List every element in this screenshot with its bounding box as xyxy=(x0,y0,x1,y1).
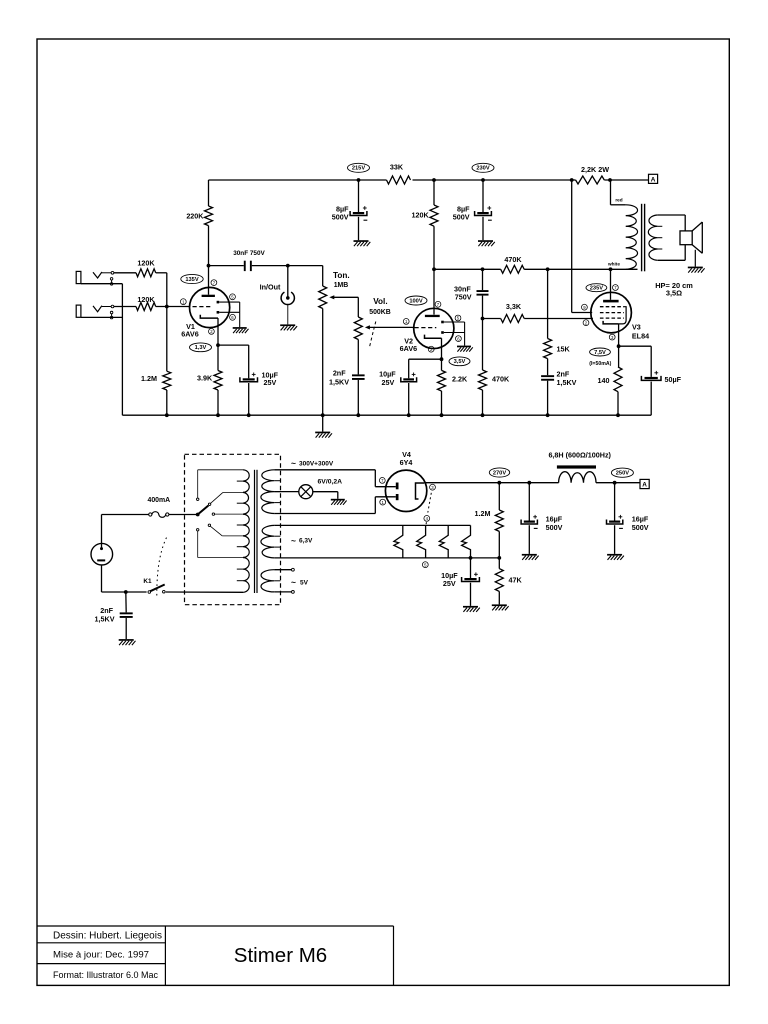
svg-text:5: 5 xyxy=(424,562,427,567)
svg-text:Format: Illustrator 6.0 Mac: Format: Illustrator 6.0 Mac xyxy=(53,970,159,980)
svg-text:25V: 25V xyxy=(382,378,395,387)
svg-text:750V: 750V xyxy=(455,293,472,302)
svg-text:500V: 500V xyxy=(632,523,649,532)
svg-text:470K: 470K xyxy=(504,255,522,264)
svg-text:2,2K 2W: 2,2K 2W xyxy=(581,165,609,174)
svg-text:5: 5 xyxy=(457,316,460,321)
svg-text:140: 140 xyxy=(598,376,610,385)
svg-text:1.2M: 1.2M xyxy=(141,374,157,383)
svg-text:Ton.: Ton. xyxy=(333,271,350,280)
svg-text:25V: 25V xyxy=(443,579,456,588)
svg-text:6,8H (600Ω/100Hz): 6,8H (600Ω/100Hz) xyxy=(548,451,611,460)
svg-text:5V: 5V xyxy=(300,579,309,586)
svg-text:7: 7 xyxy=(213,280,216,285)
svg-text:1: 1 xyxy=(405,319,408,324)
svg-text:25V: 25V xyxy=(264,378,277,387)
svg-text:250V: 250V xyxy=(616,471,629,477)
svg-text:V3: V3 xyxy=(632,322,641,331)
svg-text:1,5KV: 1,5KV xyxy=(329,377,349,386)
svg-text:3.9K: 3.9K xyxy=(197,373,213,382)
svg-text:6V/0,2A: 6V/0,2A xyxy=(318,479,343,486)
svg-text:4: 4 xyxy=(426,516,429,521)
svg-text:3: 3 xyxy=(611,335,614,340)
svg-text:Dessin: Hubert. Liegeois: Dessin: Hubert. Liegeois xyxy=(53,931,162,942)
svg-text:500KB: 500KB xyxy=(369,309,390,316)
svg-text:235V: 235V xyxy=(590,286,603,292)
svg-text:9: 9 xyxy=(583,305,586,310)
svg-text:1,3V: 1,3V xyxy=(195,345,207,351)
svg-text:3,5Ω: 3,5Ω xyxy=(666,289,682,298)
svg-text:3,5V: 3,5V xyxy=(454,359,466,365)
svg-text:A: A xyxy=(651,177,656,184)
svg-text:3,3K: 3,3K xyxy=(506,302,522,311)
svg-text:120K: 120K xyxy=(412,210,430,219)
svg-text:red: red xyxy=(615,198,622,203)
svg-text:10µF: 10µF xyxy=(379,369,396,378)
svg-text:6: 6 xyxy=(457,336,460,341)
svg-text:~: ~ xyxy=(291,458,296,468)
svg-text:120K: 120K xyxy=(137,295,155,304)
svg-text:300V+300V: 300V+300V xyxy=(299,460,334,467)
svg-text:6: 6 xyxy=(231,315,234,320)
svg-text:(I=50mA): (I=50mA) xyxy=(589,361,611,367)
svg-text:6AV6: 6AV6 xyxy=(181,330,198,339)
svg-text:50µF: 50µF xyxy=(665,375,682,384)
svg-text:470K: 470K xyxy=(492,375,510,384)
svg-text:5: 5 xyxy=(231,295,234,300)
svg-text:1: 1 xyxy=(382,500,385,505)
svg-text:7: 7 xyxy=(614,285,617,290)
svg-text:2: 2 xyxy=(585,320,588,325)
svg-text:white: white xyxy=(607,261,620,266)
svg-text:~: ~ xyxy=(291,577,296,587)
svg-text:1.2M: 1.2M xyxy=(475,509,491,518)
svg-text:33K: 33K xyxy=(390,162,404,171)
svg-text:6Y4: 6Y4 xyxy=(400,458,413,467)
svg-text:215V: 215V xyxy=(352,166,365,172)
svg-text:7: 7 xyxy=(437,302,440,307)
svg-text:2: 2 xyxy=(210,329,213,334)
svg-text:1MB: 1MB xyxy=(334,282,349,289)
svg-text:30nF 750V: 30nF 750V xyxy=(233,250,265,257)
svg-text:In/Out: In/Out xyxy=(260,282,281,291)
svg-text:500V: 500V xyxy=(332,213,349,222)
svg-text:Vol.: Vol. xyxy=(373,297,387,306)
svg-text:135V: 135V xyxy=(185,277,198,283)
svg-text:500V: 500V xyxy=(546,523,563,532)
svg-text:1: 1 xyxy=(182,299,185,304)
svg-text:220K: 220K xyxy=(186,211,204,220)
svg-text:400mA: 400mA xyxy=(147,497,170,504)
svg-text:7: 7 xyxy=(381,478,384,483)
svg-text:270V: 270V xyxy=(493,470,506,476)
svg-text:230V: 230V xyxy=(476,166,489,172)
svg-text:500V: 500V xyxy=(453,213,470,222)
svg-text:A: A xyxy=(642,482,647,489)
svg-text:6,3V: 6,3V xyxy=(299,538,313,545)
svg-text:Mise à jour: Dec. 1997: Mise à jour: Dec. 1997 xyxy=(53,950,149,961)
svg-text:47K: 47K xyxy=(509,575,523,584)
svg-text:6AV6: 6AV6 xyxy=(400,344,417,353)
svg-text:3: 3 xyxy=(431,485,434,490)
svg-text:2.2K: 2.2K xyxy=(452,375,468,384)
svg-text:100V: 100V xyxy=(409,298,422,304)
svg-text:1,5KV: 1,5KV xyxy=(557,378,577,387)
svg-text:~: ~ xyxy=(291,536,296,546)
svg-text:Stimer M6: Stimer M6 xyxy=(234,944,327,967)
svg-text:120K: 120K xyxy=(137,259,155,268)
svg-text:7,5V: 7,5V xyxy=(594,350,606,356)
svg-text:1,5KV: 1,5KV xyxy=(95,615,115,624)
svg-text:15K: 15K xyxy=(557,345,571,354)
svg-text:EL84: EL84 xyxy=(632,332,649,341)
svg-text:K1: K1 xyxy=(143,578,152,585)
